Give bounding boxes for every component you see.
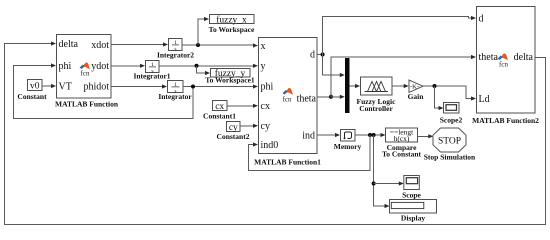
wire Compare out to STOP: [418, 134, 434, 138]
wire Memory out to Compare To Constant: [355, 133, 386, 137]
svg-text:Display: Display: [401, 214, 425, 223]
svg-text:phidot: phidot: [83, 82, 109, 93]
wire ind out to Memory: [317, 133, 340, 137]
svg-text:phi: phi: [59, 61, 72, 72]
svg-text:ind: ind: [302, 130, 315, 141]
wire Integrator2 out to x input: [182, 43, 258, 47]
wire xdot to Integrator2: [111, 42, 168, 46]
svg-text:1: 1: [174, 40, 177, 46]
label MATLAB Function2: [472, 116, 539, 125]
display: [390, 200, 437, 223]
memory: [334, 130, 362, 152]
MATLAB Function2 block U3: [477, 7, 536, 114]
svg-text:Scope: Scope: [402, 191, 421, 200]
integrator2: [157, 39, 194, 60]
svg-text:theta: theta: [479, 52, 499, 63]
svg-text:Integrator2: Integrator2: [157, 51, 194, 60]
integrator: [158, 81, 192, 102]
svg-text:fcn: fcn: [283, 95, 292, 103]
wire cy to cy input: [240, 124, 258, 128]
fuzzy logic controller: [357, 77, 397, 113]
svg-text:Constant2: Constant2: [217, 132, 250, 141]
wire theta output: [317, 96, 331, 98]
svg-text:cy: cy: [261, 121, 270, 132]
wire branch down to fuzzy_y: [197, 66, 211, 75]
wire branch to Scope: [374, 181, 404, 185]
svg-text:-K-: -K-: [410, 84, 419, 91]
svg-text:Constant: Constant: [17, 92, 47, 101]
svg-text:fuzzy_x: fuzzy_x: [216, 14, 247, 25]
svg-text:d: d: [479, 14, 484, 25]
svg-text:Controller: Controller: [359, 104, 393, 113]
svg-text:To Constant: To Constant: [382, 150, 422, 159]
svg-text:MATLAB Function1: MATLAB Function1: [254, 158, 321, 167]
junction theta: [329, 95, 333, 99]
svg-text:ydot: ydot: [91, 61, 109, 72]
wire ydot to Integrator1: [111, 64, 145, 68]
svg-text:x: x: [261, 41, 266, 52]
junction phi branch: [191, 85, 195, 89]
label MATLAB Function1: [254, 158, 321, 167]
scope2: [440, 103, 463, 125]
wire Integrator out to phi input: [183, 84, 258, 88]
svg-text:To Workspace: To Workspace: [209, 25, 255, 34]
svg-text:fcn: fcn: [81, 70, 90, 78]
wire Gain out to Ld input: [423, 86, 476, 101]
junction memory out B: [372, 133, 376, 137]
svg-text:delta: delta: [514, 52, 534, 63]
svg-text:Integrator1: Integrator1: [133, 72, 170, 81]
wire theta to Mux input 2: [331, 95, 345, 99]
compare to constant: [382, 128, 422, 159]
scope: [402, 176, 421, 200]
gain K: [408, 80, 425, 101]
to-workspace fuzzy_y: [205, 68, 255, 85]
svg-text:Memory: Memory: [334, 142, 362, 151]
svg-text:Scope2: Scope2: [440, 116, 463, 125]
svg-text:1: 1: [174, 82, 177, 88]
svg-text:cx: cx: [261, 101, 270, 112]
wire phi feedback (Integrator output down-left loop to phi input): [14, 63, 194, 118]
junction memory out A: [368, 133, 372, 137]
wire ind0 feedback loop: [248, 135, 370, 171]
svg-text:delta: delta: [59, 39, 79, 50]
fcn icon (MATLAB logo) of MATLAB Function: [80, 62, 91, 77]
junction scope branch: [372, 182, 376, 186]
integrator1: [133, 61, 170, 81]
junction x branch: [196, 43, 200, 47]
svg-text:fcn: fcn: [499, 61, 508, 69]
svg-text:v0: v0: [30, 82, 40, 92]
wire branch up to fuzzy_x: [198, 17, 209, 45]
wire delta feedback (MATLAB Function2 delta output around bottom to delta input): [5, 41, 546, 224]
svg-text:xdot: xdot: [91, 40, 109, 51]
wire Integrator1 out to y input: [159, 64, 258, 68]
constant cx: [203, 101, 236, 121]
wire v0 to VT: [42, 84, 56, 88]
svg-text:Integrator: Integrator: [158, 92, 192, 101]
to-workspace fuzzy_x: [209, 14, 255, 34]
junction d: [321, 53, 325, 57]
wire branch down to Scope2: [435, 86, 444, 110]
svg-text:MATLAB Function: MATLAB Function: [55, 100, 119, 109]
junction gain out: [433, 84, 437, 88]
wire theta up to MATLAB Function2 theta input: [331, 55, 476, 97]
svg-text:cx: cx: [215, 102, 224, 112]
wire FLC out to Gain: [392, 84, 409, 88]
junction y branch: [195, 64, 199, 68]
wire d output branch: [317, 54, 323, 56]
svg-text:STOP: STOP: [438, 136, 461, 146]
svg-text:Stop Simulation: Stop Simulation: [424, 153, 476, 162]
wire d down to Mux input 1: [323, 55, 345, 78]
svg-text:VT: VT: [59, 82, 72, 93]
wire d up to MATLAB Function2 d input: [323, 16, 476, 55]
fcn icon (MATLAB logo) of MATLAB Function1: [283, 88, 294, 104]
svg-text:Constant1: Constant1: [203, 112, 236, 121]
svg-text:MATLAB Function2: MATLAB Function2: [472, 116, 539, 125]
label MATLAB Function: [55, 100, 119, 109]
svg-text:Ld: Ld: [479, 94, 490, 105]
svg-text:Gain: Gain: [408, 92, 425, 101]
stop simulation octagon: [424, 128, 476, 162]
svg-text:To Workspace1: To Workspace1: [205, 76, 255, 85]
svg-text:ind0: ind0: [261, 140, 279, 151]
svg-text:theta: theta: [297, 93, 317, 104]
constant cy: [217, 122, 250, 142]
svg-text:h(cx): h(cx): [394, 134, 410, 143]
svg-text:1: 1: [151, 62, 154, 68]
wire cx to cx input: [227, 104, 258, 108]
svg-text:phi: phi: [261, 82, 274, 93]
fcn icon (MATLAB logo) of MATLAB Function2: [498, 53, 509, 68]
MATLAB Function block U1: [57, 35, 112, 99]
wire Mux out to Fuzzy Logic Controller: [350, 84, 361, 88]
svg-text:d: d: [310, 50, 315, 61]
constant v0: [17, 80, 47, 102]
wire down to Scope and Display: [374, 135, 390, 208]
wire phidot to Integrator: [111, 84, 167, 88]
MATLAB Function1 block U2: [259, 38, 318, 154]
mux: [345, 58, 350, 113]
svg-text:y: y: [261, 61, 266, 72]
